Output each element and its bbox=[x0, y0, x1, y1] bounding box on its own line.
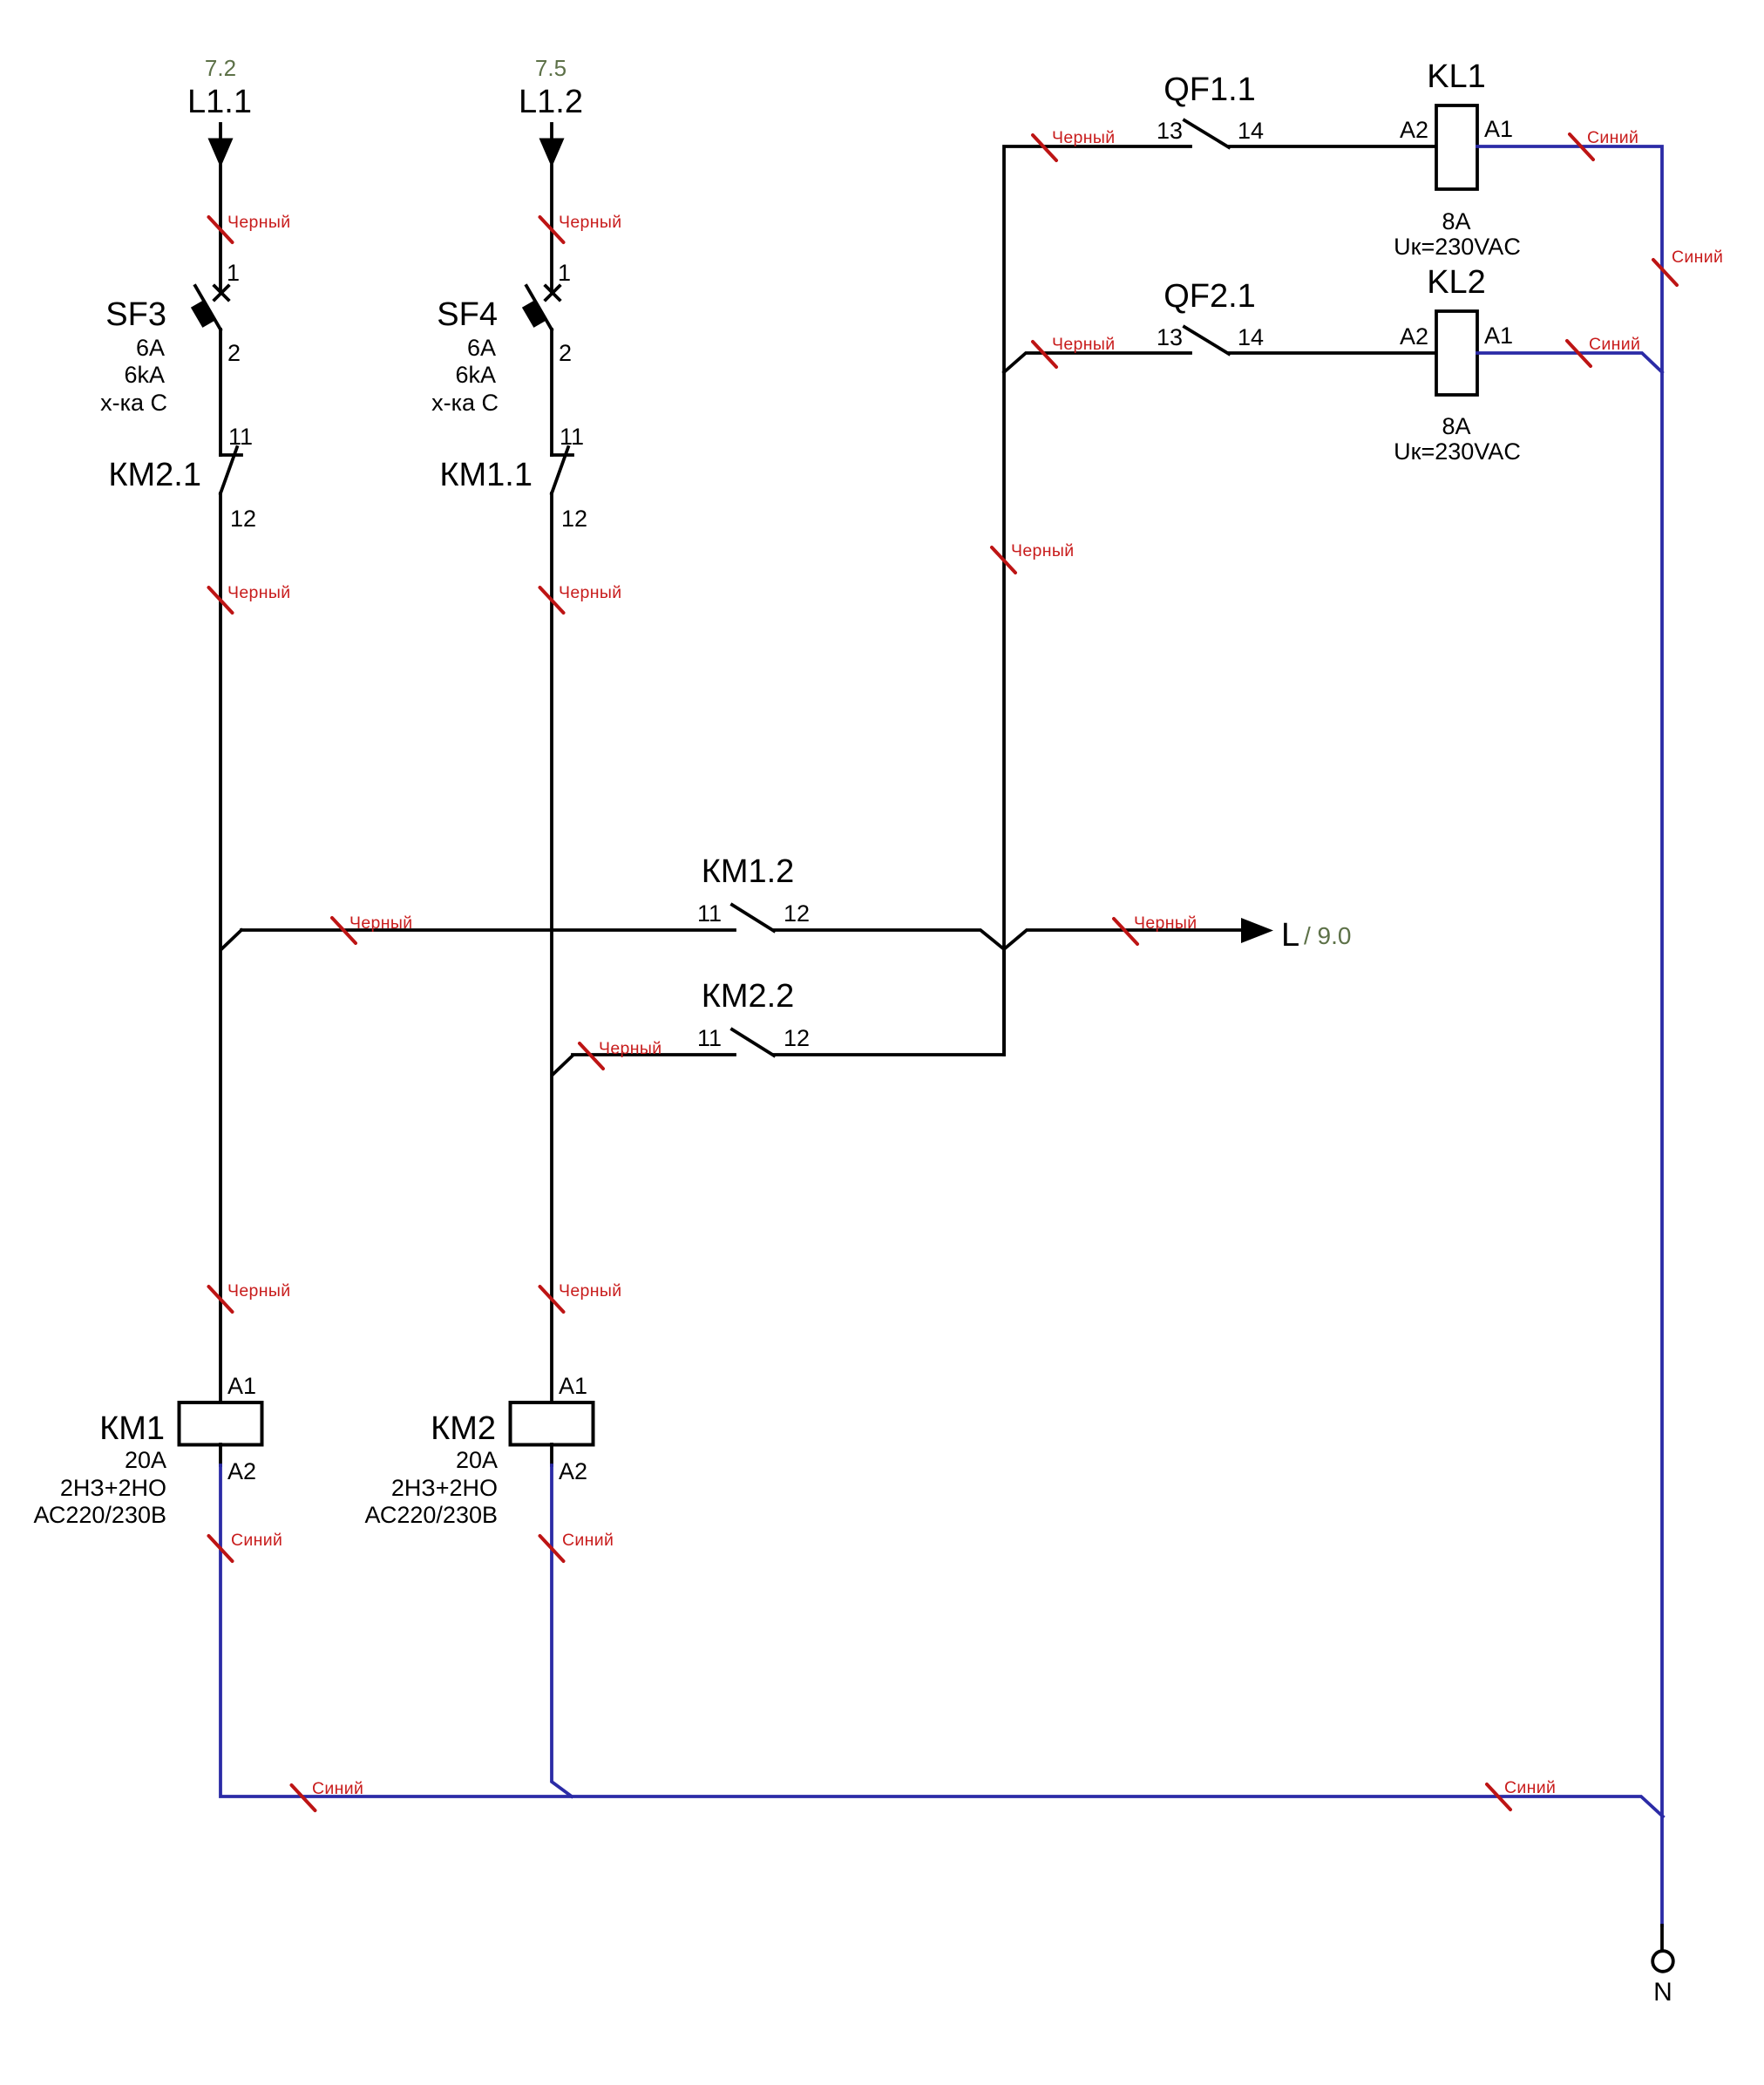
svg-text:1: 1 bbox=[558, 260, 571, 286]
wire color label Синий (KL2) bbox=[1567, 335, 1640, 366]
svg-text:14: 14 bbox=[1238, 324, 1264, 350]
NC contact KM2.1 bbox=[220, 447, 241, 493]
wire QF1.1 to KL1 A2 bbox=[1229, 145, 1436, 148]
wire color label Черный (L out) bbox=[1114, 913, 1197, 944]
svg-text:8A: 8A bbox=[1442, 413, 1470, 439]
svg-text:Синий: Синий bbox=[231, 1531, 282, 1550]
svg-text:х-ка С: х-ка С bbox=[100, 390, 167, 416]
contact KM1.2 bbox=[732, 905, 774, 931]
svg-text:Черный: Черный bbox=[559, 583, 621, 602]
relay coil KL1 bbox=[1436, 105, 1477, 189]
svg-text:АС220/230В: АС220/230В bbox=[364, 1502, 498, 1528]
NC contact KM1.1 bbox=[552, 447, 573, 493]
svg-text:12: 12 bbox=[230, 506, 256, 532]
wire color label Черный (KM1.2 in) bbox=[332, 913, 412, 943]
svg-text:A1: A1 bbox=[559, 1373, 587, 1399]
svg-text:QF2.1: QF2.1 bbox=[1164, 278, 1256, 315]
svg-text:A1: A1 bbox=[1484, 323, 1513, 349]
svg-text:КМ1.2: КМ1.2 bbox=[702, 853, 795, 890]
terminal N stub bbox=[1660, 1925, 1664, 1950]
wire color label Черный (above KM2 coil) bbox=[540, 1281, 622, 1312]
svg-text:13: 13 bbox=[1157, 324, 1183, 350]
wire KL1 A1 to N bus (blue) bbox=[1477, 146, 1662, 1925]
wire KM1 A2 stub (black) bbox=[219, 1444, 222, 1465]
wire KM1.1 to KM2 coil bbox=[550, 493, 553, 1402]
wire color label Синий (KM2) bbox=[540, 1531, 614, 1561]
svg-text:A2: A2 bbox=[227, 1458, 256, 1484]
svg-text:7.5: 7.5 bbox=[535, 55, 567, 81]
wire color label Черный (QF1.1 in) bbox=[1033, 128, 1115, 160]
wire KM2 A2 stub (black) bbox=[550, 1444, 553, 1465]
svg-text:2НЗ+2НО: 2НЗ+2НО bbox=[391, 1475, 498, 1501]
svg-text:Черный: Черный bbox=[227, 213, 290, 232]
contact QF2.1 bbox=[1184, 327, 1229, 354]
svg-text:Черный: Черный bbox=[227, 583, 290, 602]
svg-text:6A: 6A bbox=[467, 335, 496, 361]
svg-text:Синий: Синий bbox=[1587, 128, 1638, 147]
wire color label Черный (QF2.1 in) bbox=[1033, 335, 1115, 367]
svg-text:12: 12 bbox=[561, 506, 587, 532]
svg-text:2: 2 bbox=[559, 340, 572, 366]
svg-text:Черный: Черный bbox=[1052, 128, 1115, 147]
contact KM2.2 bbox=[732, 1029, 774, 1056]
svg-text:11: 11 bbox=[560, 424, 584, 450]
contact QF1.1 bbox=[1184, 120, 1229, 147]
svg-text:N: N bbox=[1653, 1978, 1672, 2007]
svg-text:КМ2.2: КМ2.2 bbox=[702, 978, 795, 1015]
svg-text:11: 11 bbox=[228, 424, 253, 450]
svg-text:A1: A1 bbox=[1484, 116, 1513, 142]
svg-text:Черный: Черный bbox=[559, 213, 621, 232]
breaker SF3 bbox=[191, 286, 228, 329]
svg-text:КМ2.1: КМ2.1 bbox=[108, 457, 201, 493]
svg-text:Uк=230VAC: Uк=230VAC bbox=[1394, 234, 1521, 260]
wire color label Синий (N bus top) bbox=[1653, 248, 1723, 285]
svg-text:6kA: 6kA bbox=[124, 362, 165, 388]
svg-text:КМ2: КМ2 bbox=[431, 1410, 496, 1447]
svg-text:13: 13 bbox=[1157, 118, 1183, 144]
wire L1.2 to SF4 pin1 bbox=[550, 166, 553, 291]
svg-text:KL1: KL1 bbox=[1427, 58, 1486, 95]
wire color label Синий (KM1) bbox=[209, 1531, 283, 1561]
wire KM1 A2 to N bus (blue) bbox=[220, 1465, 1663, 1817]
wire KM2.2 out to node bbox=[774, 949, 1004, 1055]
svg-text:Черный: Черный bbox=[227, 1281, 290, 1301]
wire QF2.1 to KL2 A2 bbox=[1229, 351, 1436, 355]
bus wire QF branch (black) bbox=[1004, 146, 1191, 1055]
relay coil KL2 bbox=[1436, 311, 1477, 395]
svg-text:A1: A1 bbox=[227, 1373, 256, 1399]
wire color label Черный (col1 mid) bbox=[209, 583, 291, 613]
svg-text:х-ка С: х-ка С bbox=[431, 390, 499, 416]
svg-text:A2: A2 bbox=[1400, 323, 1428, 350]
svg-text:КМ1.1: КМ1.1 bbox=[439, 457, 533, 493]
svg-text:SF4: SF4 bbox=[437, 296, 498, 333]
svg-text:SF3: SF3 bbox=[105, 296, 166, 333]
terminal N circle bbox=[1652, 1951, 1673, 1972]
svg-text:7.2: 7.2 bbox=[205, 55, 236, 81]
wire color label Синий (N bus left) bbox=[292, 1779, 364, 1810]
svg-text:20A: 20A bbox=[456, 1447, 498, 1473]
svg-text:L1.1: L1.1 bbox=[187, 84, 252, 120]
svg-text:Uк=230VAC: Uк=230VAC bbox=[1394, 438, 1521, 465]
wire color label Черный (above KM1 coil) bbox=[209, 1281, 291, 1312]
svg-text:6kA: 6kA bbox=[455, 362, 496, 388]
svg-text:14: 14 bbox=[1238, 118, 1264, 144]
svg-text:Черный: Черный bbox=[1052, 335, 1115, 354]
svg-text:12: 12 bbox=[784, 900, 810, 927]
svg-text:6A: 6A bbox=[136, 335, 165, 361]
svg-text:Черный: Черный bbox=[559, 1281, 621, 1301]
feed arrow L1.1 bbox=[208, 124, 234, 167]
wire color label Черный (bus) bbox=[992, 541, 1074, 573]
svg-text:L: L bbox=[1281, 917, 1299, 954]
svg-text:Синий: Синий bbox=[562, 1531, 614, 1550]
svg-text:L1.2: L1.2 bbox=[519, 84, 583, 120]
svg-text:Синий: Синий bbox=[1504, 1778, 1556, 1797]
svg-text:1: 1 bbox=[227, 260, 240, 286]
svg-text:A2: A2 bbox=[559, 1458, 587, 1484]
svg-text:11: 11 bbox=[697, 1025, 722, 1051]
svg-text:КМ1: КМ1 bbox=[99, 1410, 165, 1447]
contactor coil KM1 bbox=[180, 1402, 262, 1445]
wire bus to QF2.1 pin13 bbox=[1004, 353, 1191, 372]
wire L1.1 to SF3 pin1 bbox=[219, 166, 222, 291]
wire KM1.2 input bbox=[241, 928, 735, 932]
svg-text:2: 2 bbox=[227, 340, 241, 366]
wire KM1.2 out to node bbox=[774, 930, 1004, 949]
svg-text:20A: 20A bbox=[125, 1447, 166, 1473]
wire SF4 to KM1.1 bbox=[550, 329, 553, 455]
svg-text:Черный: Черный bbox=[1134, 913, 1197, 933]
wire SF3 to KM2.1 bbox=[219, 329, 222, 455]
wire KM2.1 to KM1 coil bbox=[219, 493, 222, 1402]
breaker SF4 bbox=[522, 286, 560, 329]
wire node to L arrow bbox=[1004, 930, 1241, 949]
wire color label Черный (KM2.2 in) bbox=[580, 1039, 661, 1069]
svg-text:Синий: Синий bbox=[1589, 335, 1640, 354]
svg-text:Синий: Синий bbox=[312, 1779, 363, 1798]
contactor coil KM2 bbox=[511, 1402, 594, 1445]
feed arrow L1.2 bbox=[539, 124, 565, 167]
svg-text:Черный: Черный bbox=[1011, 541, 1074, 560]
wire color label Синий (N bus right) bbox=[1487, 1778, 1556, 1810]
svg-text:QF1.1: QF1.1 bbox=[1164, 71, 1256, 108]
svg-text:Черный: Черный bbox=[349, 913, 412, 933]
svg-text:11: 11 bbox=[697, 900, 722, 927]
wire KM2.2 input bbox=[573, 1053, 735, 1056]
svg-text:KL2: KL2 bbox=[1427, 264, 1486, 301]
svg-text:Синий: Синий bbox=[1672, 248, 1723, 267]
wire color label Черный (L1.2 top) bbox=[540, 213, 622, 242]
svg-text:АС220/230В: АС220/230В bbox=[33, 1502, 166, 1528]
svg-text:2НЗ+2НО: 2НЗ+2НО bbox=[60, 1475, 166, 1501]
arrow to L bbox=[1241, 918, 1273, 943]
svg-text:/ 9.0: / 9.0 bbox=[1304, 922, 1351, 949]
wire color label Черный (L1.1 top) bbox=[209, 213, 291, 242]
wire KM2 A2 to N bus (blue) bbox=[552, 1465, 572, 1796]
svg-text:12: 12 bbox=[784, 1025, 810, 1051]
svg-text:8A: 8A bbox=[1442, 208, 1470, 234]
wire tap to KM1.2 bbox=[221, 930, 241, 949]
wire tap to KM2.2 bbox=[553, 1056, 573, 1075]
svg-text:Черный: Черный bbox=[599, 1039, 661, 1058]
wire color label Черный (col2 mid) bbox=[540, 583, 622, 613]
wire color label Синий (KL1) bbox=[1570, 128, 1638, 160]
wire KL2 A1 to N bus (blue) bbox=[1477, 353, 1662, 372]
svg-text:A2: A2 bbox=[1400, 117, 1428, 143]
